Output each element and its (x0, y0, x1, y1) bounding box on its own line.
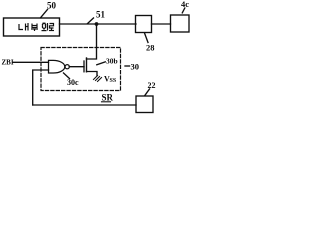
NAND output bubble (65, 65, 69, 69)
box 50 (internal circuit block) (4, 18, 60, 36)
label 30 with tie dash (125, 62, 139, 72)
transistor 30b source stub (87, 72, 98, 76)
wire ZBI to gate top input (13, 61, 49, 63)
label Vss (104, 75, 117, 85)
로 (50, 24, 54, 29)
wire from box 28 to box 4c (152, 23, 171, 25)
svg-text:51: 51 (96, 10, 106, 20)
wire gate output to transistor gate (69, 66, 84, 68)
box 28 (136, 16, 152, 33)
transistor 30b (NMOS) gate bar (83, 61, 85, 72)
label 22 (145, 81, 156, 96)
부 (32, 24, 37, 28)
회 (43, 22, 46, 24)
svg-text:30c: 30c (67, 78, 79, 87)
wire SR to box 22 (33, 104, 136, 106)
label 30c (64, 73, 80, 87)
transistor 30b channel bar (86, 58, 88, 72)
node 51 junction (95, 22, 99, 26)
label 51 (88, 10, 106, 24)
label 28 (145, 33, 155, 53)
label 4c (181, 0, 189, 13)
label 50 (41, 1, 57, 18)
내 (19, 24, 23, 30)
label SR (underlined) (102, 93, 114, 103)
svg-text:30: 30 (131, 62, 140, 72)
svg-text:30b: 30b (106, 57, 118, 66)
svg-text:28: 28 (146, 43, 155, 53)
box 22 (136, 96, 153, 113)
svg-text:50: 50 (47, 1, 57, 11)
dashed box 30 (41, 48, 121, 91)
svg-text:SS: SS (110, 78, 117, 84)
svg-text:SR: SR (102, 93, 114, 103)
svg-text:22: 22 (148, 81, 156, 90)
wire from box 50 to box 28 (60, 23, 137, 25)
ground symbol (Vss) (94, 76, 102, 82)
box 4c (171, 15, 190, 32)
wire SR to gate bottom input (33, 70, 49, 105)
NAND gate 30c (49, 60, 65, 73)
svg-text:ZBI: ZBI (2, 59, 14, 67)
label 30b (97, 57, 118, 66)
wire from node 51 down to transistor drain (87, 24, 97, 59)
text 내부 회로 (internal circuit) (19, 23, 54, 31)
